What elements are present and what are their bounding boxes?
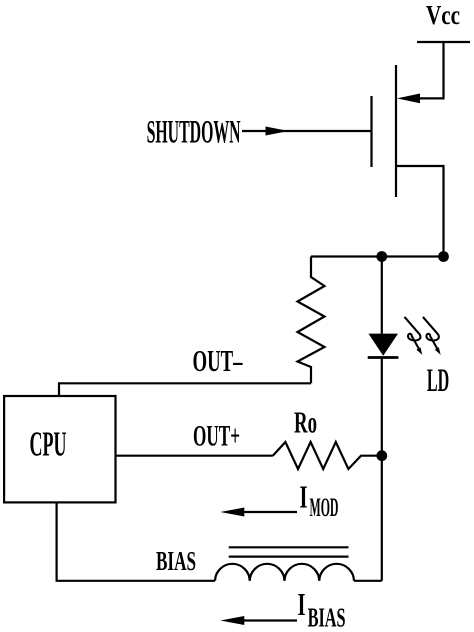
- resistor R1 (vertical): [298, 257, 325, 384]
- diode LD cathode bar: [368, 356, 399, 359]
- I BIAS arrow head: [220, 616, 244, 625]
- wire LD cathode to node C: [381, 358, 383, 456]
- svg-text:I: I: [300, 479, 308, 514]
- inductor L1 coil: [215, 564, 354, 581]
- wire OUT-: [59, 383, 311, 396]
- svg-text:MOD: MOD: [310, 493, 339, 522]
- I MOD arrow line: [240, 511, 297, 513]
- svg-text:I: I: [298, 587, 306, 622]
- svg-text:Vcc: Vcc: [426, 0, 460, 30]
- svg-text:BIAS: BIAS: [156, 546, 196, 576]
- svg-text:OUT+: OUT+: [193, 419, 240, 452]
- wire node C to inductor: [381, 456, 383, 581]
- Vcc power rail: [417, 41, 470, 43]
- wire OUT+: [116, 455, 273, 457]
- resistor Ro (horizontal): [273, 442, 382, 469]
- diode LD triangle: [369, 334, 399, 356]
- node junction dot C: [376, 450, 387, 461]
- node junction dot A: [376, 251, 387, 262]
- I BIAS arrow line: [240, 619, 297, 621]
- diode LD light arrow 1 head: [416, 347, 422, 355]
- wire inductor to node branch: [354, 580, 382, 582]
- SHUTDOWN wire: [242, 130, 372, 132]
- svg-text:CPU: CPU: [30, 425, 67, 464]
- CPU U1 box: [4, 396, 115, 502]
- diode LD light arrow 2: [423, 317, 439, 349]
- node junction dot B: [438, 251, 449, 262]
- wire Vcc to Q1 drain: [419, 42, 444, 98]
- I MOD arrow head: [220, 508, 244, 517]
- diode LD light arrow 2 head: [435, 347, 441, 355]
- svg-text:LD: LD: [427, 363, 449, 399]
- svg-text:SHUTDOWN: SHUTDOWN: [147, 115, 241, 151]
- transistor Q1 source wire: [396, 166, 444, 257]
- transistor Q1 drain arrow: [397, 94, 420, 104]
- diode LD light arrow 1: [405, 317, 421, 349]
- SHUTDOWN arrow: [266, 127, 289, 136]
- inductor L1 core line 1: [229, 546, 349, 548]
- transistor Q1 gate bar: [370, 96, 372, 167]
- wire top rail node: [311, 255, 444, 257]
- inductor L1 core line 2: [229, 555, 349, 557]
- svg-text:BIAS: BIAS: [308, 602, 346, 632]
- wire CPU to bias inductor: [57, 502, 215, 580]
- svg-text:Ro: Ro: [294, 405, 317, 440]
- wire node A to LD anode: [381, 257, 383, 334]
- transistor Q1 channel bar: [395, 65, 397, 197]
- svg-text:OUT–: OUT–: [193, 343, 243, 378]
